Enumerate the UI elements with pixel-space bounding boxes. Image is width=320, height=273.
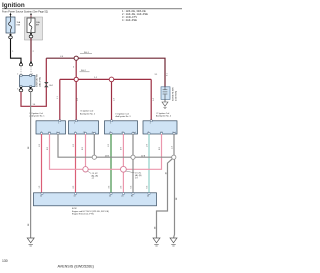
svg-text:I 6 Ignition Coil: I 6 Ignition Coil <box>116 112 130 115</box>
svg-text:2: 2 <box>17 73 18 75</box>
svg-text:12 B: 12 B <box>105 155 110 157</box>
svg-text:And Igniter No. 2: And Igniter No. 2 <box>80 112 96 115</box>
svg-text:And Igniter No. 1: And Igniter No. 1 <box>30 115 46 118</box>
svg-text:EFI: EFI <box>36 25 40 27</box>
svg-text:And Igniter No. 4: And Igniter No. 4 <box>156 115 172 118</box>
svg-text:Ignition: Ignition <box>2 2 25 9</box>
svg-text:13: 13 <box>74 196 76 198</box>
svg-text:NOISE FILTER: NOISE FILTER <box>173 87 175 101</box>
svg-text:24: 24 <box>121 196 123 198</box>
svg-text:(2AZ–FSE): (2AZ–FSE) <box>38 77 41 87</box>
svg-text:I 4 Ignition Coil: I 4 Ignition Coil <box>30 112 44 115</box>
svg-text:3: 3 <box>17 88 18 90</box>
svg-text:IGNITION SW: IGNITION SW <box>37 74 39 87</box>
svg-text:I 5 Ignition Coil: I 5 Ignition Coil <box>80 110 94 113</box>
svg-text:1: 1 <box>110 122 111 124</box>
svg-text:1: 1 <box>32 73 33 75</box>
svg-text:1: 1 <box>74 122 75 124</box>
svg-text:AVENSIS (EWD526E): AVENSIS (EWD526E) <box>58 265 94 269</box>
svg-text:From Power Source System (See: From Power Source System (See Page 52) <box>2 10 48 13</box>
svg-text:1: 1 <box>58 122 59 124</box>
svg-text:12 B: 12 B <box>141 155 146 157</box>
svg-text:And Igniter No. 3: And Igniter No. 3 <box>116 115 132 118</box>
svg-text:E1: E1 <box>131 196 133 198</box>
svg-text:12: 12 <box>40 196 42 198</box>
svg-text:4 : 2AZ–FSE: 4 : 2AZ–FSE <box>122 18 137 22</box>
svg-text:(IGNITION): (IGNITION) <box>176 90 178 101</box>
svg-text:1: 1 <box>150 122 151 124</box>
svg-text:25: 25 <box>109 196 111 198</box>
svg-text:130: 130 <box>2 259 8 263</box>
svg-text:ECM: ECM <box>72 208 77 210</box>
svg-text:Engine ECU (1CD–FTV): Engine ECU (1CD–FTV) <box>72 214 94 216</box>
svg-text:Engine and ECT ECU (1ZZ–FE, 3Z: Engine and ECT ECU (1ZZ–FE, 3ZZ–FE) <box>72 211 109 213</box>
svg-text:23: 23 <box>147 196 149 198</box>
svg-text:IGN: IGN <box>17 25 21 27</box>
svg-text:I 7 Ignition Coil: I 7 Ignition Coil <box>156 112 170 115</box>
